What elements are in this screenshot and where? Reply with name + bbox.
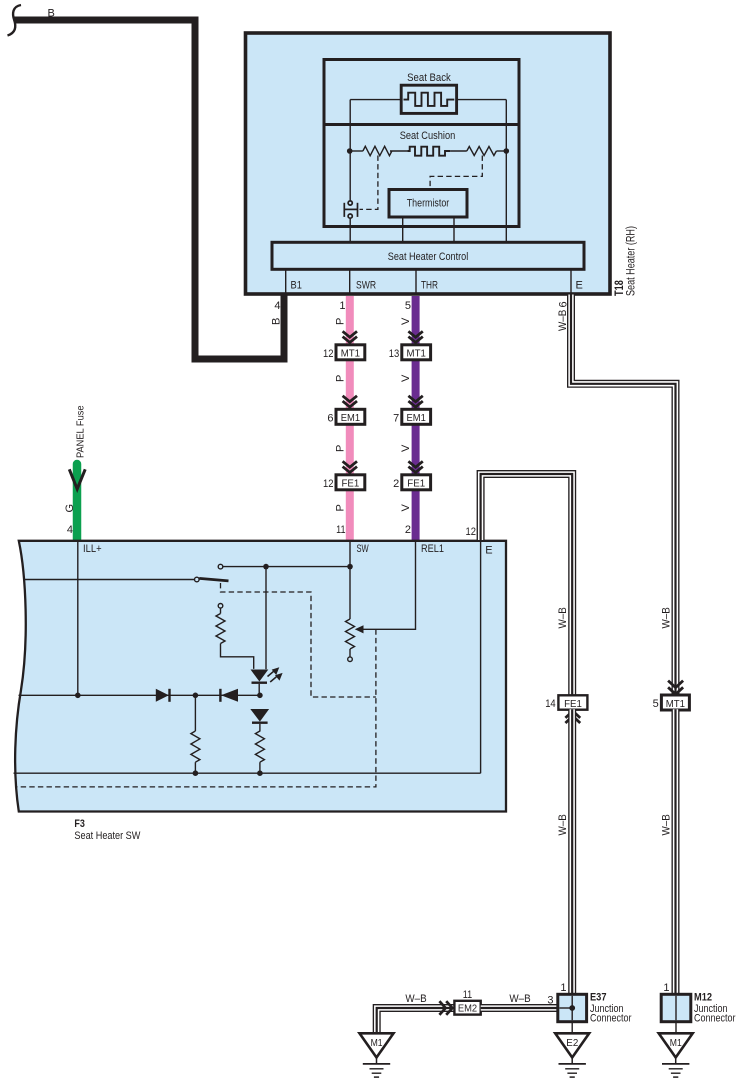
dashed link: right cushion resistor to thermistor [430, 156, 482, 189]
wire W-B from F3 pin E(12) to FE1 (double line) [481, 474, 573, 696]
svg-text:MT1: MT1 [407, 348, 426, 360]
node: LED cathode junction [257, 693, 263, 699]
component Thermistor [389, 190, 467, 218]
svg-text:FE1: FE1 [342, 478, 360, 490]
wire W-B from ground M1 to EM2 (double line) [377, 1008, 455, 1033]
node: cushion left junction [347, 148, 353, 154]
svg-text:V: V [400, 444, 412, 452]
svg-text:1: 1 [663, 982, 669, 994]
wire: REL1 pin to wiper [363, 541, 416, 629]
potentiometer [346, 619, 364, 662]
svg-text:Seat Heater (RH): Seat Heater (RH) [626, 226, 638, 296]
svg-text:V: V [400, 317, 412, 325]
svg-text:EM2: EM2 [458, 1004, 478, 1015]
ground M1 (right) [659, 1033, 693, 1077]
wire B (thick black battery feed) [8, 5, 285, 359]
wire: left node down to thermal switch [349, 151, 351, 201]
svg-text:Seat Cushion: Seat Cushion [400, 130, 456, 142]
node: SW junction [347, 564, 353, 570]
connector EM1 pin 7 (violet wire) [393, 396, 430, 425]
connector MT1 pin 12 (pink wire) [323, 331, 365, 360]
svg-text:FE1: FE1 [407, 478, 425, 490]
svg-text:13: 13 [389, 348, 400, 360]
svg-text:W–B: W–B [661, 607, 673, 628]
svg-text:W–B: W–B [661, 814, 673, 835]
svg-text:V: V [400, 504, 412, 512]
resistor R2 to ground rail [191, 695, 200, 773]
svg-text:Seat Heater Control: Seat Heater Control [388, 251, 469, 263]
svg-text:MT1: MT1 [666, 698, 685, 710]
inner heater element box (seat back / seat cushion) [324, 60, 519, 227]
connector MT1 pin 5 (W-B wire) [653, 681, 690, 710]
svg-text:REL1: REL1 [421, 543, 444, 555]
wire W-B from MT1 to M12 (double line) [672, 709, 680, 995]
svg-text:EM1: EM1 [407, 412, 426, 424]
ground E2 [555, 1033, 589, 1077]
dashed link: left cushion resistor to thermal switch [360, 156, 378, 210]
svg-text:W–B: W–B [509, 993, 530, 1005]
svg-text:12: 12 [466, 526, 477, 538]
svg-text:5: 5 [405, 300, 411, 312]
wire: thermistor left lead [402, 217, 404, 242]
svg-text:E37: E37 [590, 992, 607, 1004]
wire: E pin to ground rail [480, 541, 482, 773]
svg-text:6: 6 [327, 413, 333, 425]
svg-text:14: 14 [545, 698, 556, 710]
svg-text:4: 4 [274, 300, 280, 312]
ground rail inside F3 [14, 772, 481, 774]
svg-text:B1: B1 [291, 280, 302, 292]
pin B1 stub [285, 269, 287, 294]
svg-text:E: E [485, 545, 492, 557]
dashed mechanical link from potentiometer wiper [16, 629, 376, 787]
svg-text:E: E [576, 280, 583, 292]
svg-text:W–B: W–B [405, 993, 426, 1005]
wire W-B from EM2 to E37 (double line) [481, 1004, 558, 1012]
diode D2 (pointing left) [220, 689, 238, 702]
heater element: seat cushion row with two resistors [350, 146, 507, 155]
wire: M12 to ground M1 [675, 1022, 677, 1033]
svg-text:EM1: EM1 [341, 412, 360, 424]
thermal switch (thermostat) in T18 [344, 201, 357, 218]
wire: switch feed from left edge [25, 579, 195, 581]
wire: seat back element to right branch [457, 99, 507, 101]
svg-text:E2: E2 [566, 1037, 578, 1049]
svg-text:P: P [335, 445, 347, 452]
svg-text:M1: M1 [670, 1037, 682, 1049]
wire W-B from FE1 to E37 (double line) [568, 709, 576, 995]
diode D1 (pointing right) [156, 689, 170, 702]
svg-text:B: B [48, 8, 55, 20]
wire: thermistor right lead [453, 217, 455, 242]
component T18 Seat Heater (RH) box [246, 33, 638, 296]
pin THR stub [415, 269, 417, 294]
wire: ILL+ pin 4 down to diode rail [77, 541, 79, 695]
wire: SW pin down to potentiometer [349, 541, 351, 619]
svg-text:W–B: W–B [557, 310, 569, 331]
svg-text:6: 6 [558, 301, 570, 307]
resistor branch with open terminal [216, 604, 254, 669]
wire V (violet) THR pin 5 to REL1 pin 2 [412, 296, 420, 540]
node: LED branch junction [263, 564, 269, 570]
wire: left vertical to cushion node [349, 100, 351, 151]
node: cushion right junction [504, 148, 510, 154]
svg-text:2: 2 [405, 524, 411, 536]
connector FE1 pin 2 (violet wire) [393, 461, 430, 490]
wire: switch to SW node [223, 566, 350, 568]
wire P (pink) SWR pin 1 to SW pin 11 [346, 296, 354, 540]
svg-text:B: B [271, 318, 283, 325]
svg-text:1: 1 [339, 300, 345, 312]
LED indicator [251, 667, 283, 695]
junction connector E37 [558, 992, 632, 1025]
svg-text:3: 3 [547, 995, 553, 1007]
pin SWR stub [349, 269, 351, 294]
svg-text:Seat Back: Seat Back [407, 72, 451, 84]
connector EM2 pin 11 [439, 989, 480, 1015]
diode rail [19, 694, 260, 696]
wire: right node down to control module [505, 151, 507, 242]
wire: LED anode from SW line [265, 567, 267, 670]
svg-text:P: P [335, 504, 347, 511]
pin E stub [570, 269, 572, 294]
svg-text:12: 12 [323, 478, 334, 490]
wire G (green) from PANEL fuse to ILL+ pin 4 [64, 405, 87, 540]
connector FE1 pin 12 (pink wire) [323, 461, 365, 490]
svg-text:SW: SW [357, 543, 370, 555]
svg-text:4: 4 [67, 524, 73, 536]
svg-text:T18: T18 [614, 280, 626, 296]
component Seat Heater Control [272, 242, 584, 269]
node: R3 on rail [257, 770, 263, 776]
svg-text:Connector: Connector [590, 1013, 632, 1025]
svg-text:2: 2 [393, 478, 399, 490]
svg-text:11: 11 [336, 524, 345, 536]
svg-text:F3: F3 [74, 818, 85, 830]
svg-text:M12: M12 [694, 992, 712, 1004]
svg-text:M1: M1 [371, 1037, 383, 1049]
ground M1 (left) [360, 1033, 394, 1077]
svg-text:FE1: FE1 [564, 698, 582, 710]
junction connector M12 [661, 992, 736, 1025]
svg-text:ILL+: ILL+ [83, 543, 102, 555]
svg-text:P: P [335, 318, 347, 325]
heater element: seat back [401, 85, 456, 113]
svg-text:G: G [64, 504, 76, 513]
svg-text:11: 11 [463, 989, 472, 1001]
svg-text:12: 12 [323, 348, 334, 360]
svg-text:MT1: MT1 [341, 348, 360, 360]
node: resistor branch junction [193, 693, 199, 699]
resistor R3 to ground rail [255, 724, 264, 773]
switch SW (slide contact) [195, 564, 229, 582]
svg-text:5: 5 [653, 698, 659, 710]
svg-text:Thermistor: Thermistor [407, 198, 450, 210]
wire: thermal switch to control module [349, 218, 351, 242]
diode D3 (pointing down) [250, 709, 269, 723]
svg-text:V: V [400, 374, 412, 382]
node: R2 on rail [193, 770, 199, 776]
svg-text:W–B: W–B [557, 607, 569, 628]
dashed mechanical link from switch [221, 583, 376, 697]
svg-text:W–B: W–B [557, 814, 569, 835]
svg-text:7: 7 [393, 413, 399, 425]
wire W-B from T18 pin E to MT1 (double line) [571, 295, 676, 696]
svg-text:SWR: SWR [356, 280, 376, 292]
svg-text:PANEL Fuse: PANEL Fuse [75, 405, 87, 458]
svg-text:Seat Heater SW: Seat Heater SW [74, 830, 141, 842]
svg-text:1: 1 [560, 982, 566, 994]
connector EM1 pin 6 (pink wire) [327, 396, 364, 425]
svg-text:P: P [335, 375, 347, 382]
connector FE1 pin 14 (W-B wire) [545, 695, 587, 723]
svg-text:THR: THR [421, 280, 438, 292]
wire: right vertical to cushion node [505, 100, 507, 151]
connector MT1 pin 13 (violet wire) [389, 331, 431, 360]
component F3 Seat Heater SW box [15, 541, 506, 842]
wire: E37 to ground E2 [571, 1022, 573, 1033]
wire: seat back element to left branch [350, 99, 401, 101]
node: ILL+ junction [75, 693, 81, 699]
svg-text:Connector: Connector [694, 1013, 736, 1025]
